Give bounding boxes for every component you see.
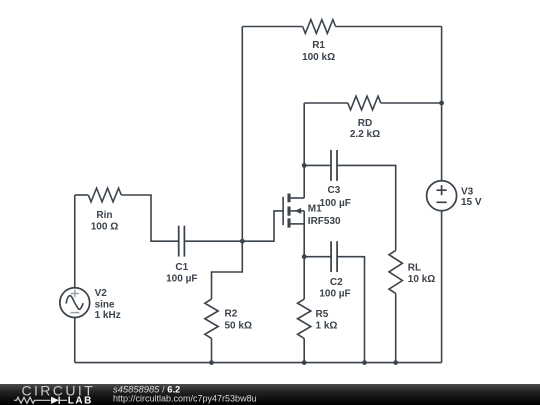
resistor R5 — [298, 299, 311, 338]
svg-text:2.2 kΩ: 2.2 kΩ — [350, 129, 380, 140]
wire V2 top vertical — [74, 195, 76, 288]
resistor RD — [348, 96, 381, 110]
wire C3 left lead — [304, 164, 331, 166]
svg-text:M1: M1 — [308, 203, 322, 214]
svg-text:RD: RD — [358, 118, 372, 129]
svg-text:http://circuitlab.com/c7py47r5: http://circuitlab.com/c7py47r53bw8u — [113, 393, 257, 403]
resistor R2 — [205, 299, 218, 338]
svg-text:LAB: LAB — [68, 396, 93, 405]
junction bias node — [240, 239, 245, 244]
wire C2 right lead down to bottom rail — [337, 257, 364, 363]
wire source vertical down to node — [303, 211, 305, 257]
capacitor C1 — [179, 226, 185, 257]
svg-text:V2: V2 — [95, 288, 108, 299]
MOSFET M1 gate bar — [282, 197, 284, 225]
svg-text:1 kHz: 1 kHz — [95, 310, 121, 321]
wire right vertical (top rail to V3 plus) — [441, 27, 443, 181]
svg-text:RL: RL — [408, 263, 421, 274]
svg-text:C3: C3 — [328, 185, 341, 196]
svg-text:C2: C2 — [330, 277, 343, 288]
svg-text:100 µF: 100 µF — [320, 198, 351, 209]
wire R2 bottom — [211, 338, 213, 362]
svg-text:sine: sine — [95, 300, 115, 311]
resistor Rin — [88, 188, 121, 202]
V2 minus sign — [70, 312, 79, 314]
svg-text:100 Ω: 100 Ω — [91, 222, 118, 233]
V3 plus sign — [437, 185, 447, 195]
wire RD rail left segment — [304, 102, 348, 104]
wire Rin right lead down to C1 level — [121, 195, 179, 241]
wire C3 right lead to RL top — [337, 165, 396, 250]
wire V3 bottom vertical — [441, 211, 443, 363]
MOSFET M1 drain lead — [291, 197, 305, 199]
svg-text:R1: R1 — [312, 40, 325, 51]
V2 plus sign — [71, 290, 79, 297]
junction C2 bottom rail — [362, 360, 367, 365]
svg-text:50 kΩ: 50 kΩ — [225, 320, 252, 331]
wire Rin left lead — [75, 194, 89, 196]
junction C3 left on drain wire — [302, 163, 307, 168]
wire RL bottom — [395, 293, 397, 362]
wire C2 left lead — [304, 256, 331, 258]
MOSFET M1 arrow — [295, 208, 302, 214]
wire drain vertical — [303, 103, 305, 198]
wire top rail left segment — [242, 26, 302, 28]
voltage source V2 circle — [60, 288, 90, 318]
svg-text:C1: C1 — [175, 262, 188, 273]
wire bias vertical (R1 left to gate node) — [241, 27, 243, 242]
capacitor C2 — [331, 241, 337, 272]
MOSFET M1 source lead — [291, 223, 305, 225]
junction R5 bottom rail — [302, 360, 307, 365]
V3 minus sign — [437, 201, 447, 203]
junction R2 bottom rail — [209, 360, 214, 365]
wire bottom rail — [75, 362, 442, 364]
wire source node down to R5 — [303, 257, 305, 299]
wire V2 bottom vertical — [74, 318, 76, 363]
junction source node — [302, 254, 307, 259]
resistor R1 — [303, 20, 336, 34]
junction RL bottom rail — [393, 360, 398, 365]
svg-text:10 kΩ: 10 kΩ — [408, 274, 435, 285]
wire gate lead (node to MOSFET gate) — [242, 211, 283, 241]
V2 sine wave — [66, 296, 83, 310]
wire RD rail right segment — [381, 102, 442, 104]
wire top rail right segment — [336, 26, 442, 28]
MOSFET M1 channel bars — [287, 194, 290, 228]
svg-text:Rin: Rin — [96, 210, 112, 221]
resistor RL — [389, 250, 402, 293]
voltage source V3 circle — [427, 181, 457, 211]
svg-text:R2: R2 — [225, 309, 238, 320]
svg-text:1 kΩ: 1 kΩ — [316, 320, 338, 331]
wire R5 bottom — [303, 338, 305, 362]
svg-text:R5: R5 — [316, 309, 329, 320]
junction RD right at V3 rail — [439, 101, 444, 106]
wire C1 right lead to bias node — [184, 240, 242, 242]
MOSFET M1 body line — [291, 210, 305, 212]
svg-text:IRF530: IRF530 — [308, 216, 341, 227]
svg-text:100 µF: 100 µF — [319, 288, 350, 299]
svg-text:100 kΩ: 100 kΩ — [302, 52, 335, 63]
svg-text:V3: V3 — [461, 186, 474, 197]
wire bias node down to R2 — [212, 241, 243, 299]
capacitor C3 — [331, 150, 337, 181]
footer bar — [0, 384, 540, 405]
svg-text:100 µF: 100 µF — [166, 274, 197, 285]
CircuitLab logo — [14, 383, 95, 405]
svg-text:15 V: 15 V — [461, 197, 482, 208]
